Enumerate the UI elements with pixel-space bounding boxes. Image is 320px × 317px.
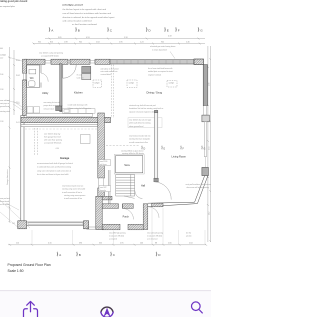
- svg-text:existing infilled as glass don: existing infilled as glass donor: [121, 149, 144, 152]
- svg-text:is side wide doorways with: is side wide doorways with: [68, 104, 88, 107]
- svg-text:942: 942: [79, 42, 82, 44]
- svg-text:4.18: 4.18: [168, 36, 172, 38]
- svg-text:Dining / Snug: Dining / Snug: [147, 90, 163, 94]
- svg-text:new 2080 high opening: new 2080 high opening: [109, 233, 126, 235]
- svg-text:new pad and: new pad and: [0, 198, 10, 200]
- svg-text:2.66: 2.66: [168, 242, 172, 244]
- svg-text:separate structural engineers: separate structural engineers details: [129, 110, 156, 113]
- svg-text:new swing for two with: new swing for two with: [44, 101, 61, 104]
- svg-text:Store: Store: [124, 164, 130, 167]
- svg-text:as final location confirmed: as final location confirmed: [72, 23, 98, 26]
- svg-text:4.88: 4.88: [209, 83, 211, 86]
- svg-text:boxed in: boxed in: [100, 190, 106, 192]
- svg-text:new FD30: new FD30: [100, 161, 107, 163]
- svg-text:Proposed Ground Floor Plan: Proposed Ground Floor Plan: [8, 263, 51, 267]
- svg-text:5.18: 5.18: [124, 37, 128, 39]
- svg-text:over 100mm deep lay: over 100mm deep lay: [44, 133, 60, 136]
- svg-text:as required: as required: [109, 239, 117, 241]
- svg-text:2.64: 2.64: [96, 42, 100, 44]
- svg-text:1.98: 1.98: [0, 89, 3, 91]
- svg-text:Scale 1:50: Scale 1:50: [8, 269, 24, 273]
- svg-text:rooflight: rooflight: [0, 54, 7, 57]
- svg-text:extra wide removal via: extra wide removal via: [101, 70, 118, 73]
- svg-text:2.96: 2.96: [119, 42, 123, 44]
- svg-text:4.16: 4.16: [48, 242, 52, 244]
- svg-text:600: 600: [0, 48, 3, 50]
- svg-text:Utility: Utility: [42, 91, 49, 95]
- svg-text:2.95: 2.95: [120, 242, 124, 244]
- svg-text:2.64: 2.64: [209, 147, 211, 150]
- svg-text:1.98: 1.98: [0, 121, 3, 123]
- svg-text:E: E: [167, 29, 169, 33]
- svg-text:opening infilled as SE denote: opening infilled as SE denote: [122, 152, 144, 155]
- svg-text:within walls linked to existin: within walls linked to existing: [129, 122, 151, 125]
- svg-text:210: 210: [16, 242, 19, 244]
- svg-text:from garage floor level: from garage floor level: [44, 136, 61, 139]
- svg-text:new all fixed wires/cut outs/a: new all fixed wires/cut outs/above with …: [63, 12, 112, 15]
- svg-text:new solid wall opening: new solid wall opening: [147, 233, 163, 235]
- svg-text:W.02: W.02: [16, 75, 20, 77]
- svg-text:and contact location confirmed: and contact location confirmed: [63, 20, 93, 23]
- svg-text:D.01: D.01: [16, 122, 20, 124]
- svg-text:as required plan: as required plan: [0, 5, 16, 8]
- svg-text:existing using same squares: existing using same squares: [64, 194, 85, 197]
- svg-text:structural eng. bolt-off concr: structural eng. bolt-off concrete pad: [129, 104, 156, 107]
- svg-text:vent pipe as: vent pipe as: [0, 102, 9, 105]
- svg-text:B: B: [79, 253, 81, 257]
- svg-text:line of new steel/steel beam w: line of new steel/steel beam with: [148, 67, 172, 70]
- svg-text:to retain department: to retain department: [152, 48, 168, 51]
- svg-text:396: 396: [79, 242, 82, 244]
- svg-text:WC: WC: [30, 77, 34, 80]
- svg-text:Kitchen: Kitchen: [74, 91, 83, 95]
- svg-text:existing using same removable: existing using same removable: [62, 188, 85, 191]
- svg-text:the kitchen layout to be agree: the kitchen layout to be agreed with cli…: [63, 8, 107, 11]
- svg-text:new SVP: new SVP: [100, 187, 107, 189]
- svg-text:Hall: Hall: [141, 185, 146, 188]
- svg-text:wall above to be carried: wall above to be carried: [101, 67, 119, 70]
- svg-text:to wall connection & line to: to wall connection & line to: [62, 191, 82, 194]
- svg-text:2.64: 2.64: [189, 242, 193, 244]
- svg-text:above ground level: above ground level: [129, 125, 144, 128]
- svg-text:existing wherever alongside: existing wherever alongside: [129, 138, 150, 141]
- svg-text:88: 88: [155, 242, 157, 244]
- svg-text:as expected SE details: as expected SE details: [44, 142, 61, 145]
- svg-text:as supported SE details: as supported SE details: [41, 55, 59, 58]
- svg-text:with same floor opening: with same floor opening: [44, 139, 62, 142]
- svg-text:2.24: 2.24: [140, 42, 144, 44]
- svg-text:self close: self close: [100, 164, 107, 166]
- svg-text:Porch: Porch: [123, 216, 130, 219]
- svg-text:B: B: [78, 29, 80, 33]
- svg-text:new soil and: new soil and: [0, 100, 9, 102]
- svg-text:removal stack: removal stack: [44, 107, 55, 110]
- svg-text:new 100mm dia soil vent pipe: new 100mm dia soil vent pipe: [129, 118, 151, 121]
- svg-text:survival detail: survival detail: [101, 73, 112, 76]
- svg-text:line to later and frame to thy: line to later and frame to thyme steel s…: [37, 173, 69, 176]
- svg-text:using same steel plante to wal: using same steel plante to wall connecti…: [37, 169, 72, 172]
- svg-text:942: 942: [161, 42, 164, 44]
- svg-text:over: over: [0, 57, 4, 60]
- svg-text:relocated gas meter boxing abo: relocated gas meter boxing above: [150, 45, 175, 48]
- svg-text:engineer's details: engineer's details: [148, 73, 161, 76]
- svg-text:welded plate as required to st: welded plate as required to struct: [148, 70, 173, 73]
- svg-text:810: 810: [50, 42, 53, 44]
- svg-text:3.12: 3.12: [209, 212, 211, 215]
- svg-text:D: D: [144, 147, 146, 150]
- svg-text:F: F: [178, 29, 180, 33]
- svg-text:Garage dimensions: Garage dimensions: [7, 169, 9, 185]
- svg-text:ground level: ground level: [0, 105, 10, 108]
- svg-text:G: G: [204, 147, 206, 150]
- svg-text:foundation 2nd site line exist: foundation 2nd site line existing cavity…: [129, 107, 163, 110]
- svg-text:as wall connection to flue: as wall connection to flue: [129, 141, 148, 144]
- svg-text:new 100mm cavity wall opening: new 100mm cavity wall opening: [39, 51, 63, 54]
- svg-text:2.46: 2.46: [186, 42, 190, 44]
- svg-text:4.50: 4.50: [56, 148, 59, 150]
- svg-text:Living Room: Living Room: [172, 154, 186, 158]
- svg-text:Garage: Garage: [60, 156, 70, 160]
- svg-text:f/f zone: f/f zone: [77, 75, 82, 77]
- svg-text:KITCHEN LAYOUT: KITCHEN LAYOUT: [63, 4, 84, 7]
- svg-text:existing stack: existing stack: [0, 110, 10, 113]
- svg-text:recommissioned walls built off: recommissioned walls built off garage fi…: [37, 162, 73, 165]
- svg-text:4.53: 4.53: [86, 37, 90, 39]
- svg-text:new brickwork joint near two: new brickwork joint near two: [62, 184, 83, 187]
- svg-text:3.81: 3.81: [58, 37, 62, 39]
- svg-text:direction is advised, do to be: direction is advised, do to be agreed av…: [63, 16, 115, 19]
- svg-text:246: 246: [140, 242, 143, 244]
- svg-text:952: 952: [38, 42, 41, 44]
- svg-text:new brickwork walls tied into: new brickwork walls tied into: [129, 134, 150, 137]
- svg-text:355: 355: [99, 242, 102, 244]
- svg-text:1.98: 1.98: [64, 42, 68, 44]
- svg-text:to underside floor joists and: to underside floor joists and flank line…: [37, 166, 71, 169]
- svg-text:2.06: 2.06: [0, 74, 3, 76]
- svg-text:rating good pins board: rating good pins board: [0, 0, 28, 3]
- svg-text:to wall connection & line: to wall connection & line: [64, 197, 82, 200]
